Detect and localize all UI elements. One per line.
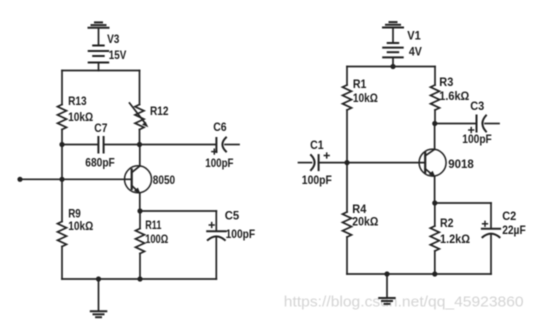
node junction R3 branch / C3 row	[432, 121, 437, 126]
wire emitter row to C2	[435, 202, 491, 204]
wire R4 lower	[346, 237, 348, 274]
svg-text:10kΩ: 10kΩ	[68, 219, 93, 233]
wire R1 branch upper	[346, 67, 348, 86]
plus of C2	[483, 221, 488, 226]
wire R1 to C1 node	[346, 110, 348, 212]
svg-text:V1: V1	[407, 29, 421, 43]
ground (bottom right circuit)	[379, 298, 395, 304]
plus of C1	[324, 153, 329, 158]
wire R3 to C3 node	[434, 110, 436, 124]
ground (top of V1)	[383, 22, 403, 27]
node junction left branch / C7 row	[59, 142, 64, 147]
wire bottom rail left circuit	[62, 278, 216, 280]
svg-text:R2: R2	[440, 216, 454, 230]
svg-text:8050: 8050	[153, 173, 175, 187]
wire R11 branch lower	[139, 254, 141, 280]
arrow of R12	[130, 103, 149, 127]
node junction emitter / C5 row	[137, 208, 142, 213]
resistor R9	[58, 222, 67, 247]
node junction R2 / bottom rail right	[432, 271, 437, 276]
wire C6 right stub	[225, 144, 239, 146]
svg-text:4V: 4V	[409, 44, 423, 58]
wire left branch middle	[61, 130, 63, 222]
node junction right branch / C7 row	[137, 142, 142, 147]
wire C3 row left	[435, 123, 476, 125]
svg-text:https://blog.csdn.net/qq_45923: https://blog.csdn.net/qq_45923860	[284, 294, 524, 311]
node junction R branch / base wire	[344, 160, 349, 165]
svg-text:20kΩ: 20kΩ	[352, 214, 378, 228]
ground (bottom left circuit)	[91, 311, 107, 317]
plus of C5	[209, 223, 214, 228]
svg-text:C5: C5	[225, 208, 240, 222]
capacitor C6 (polarized)	[216, 138, 226, 153]
node junction battery V1 / top rail	[390, 64, 395, 69]
wire R11 branch upper	[139, 211, 141, 229]
svg-text:1.6kΩ: 1.6kΩ	[439, 89, 469, 103]
node junction ground / bottom rail right	[384, 271, 389, 276]
wire R2 branch lower	[434, 251, 436, 274]
svg-text:R11: R11	[145, 218, 161, 232]
wire C5 branch upper	[215, 211, 217, 231]
wire bottom rail right circuit	[347, 273, 491, 275]
wire emitter 9018	[434, 177, 436, 203]
node junction emitter / C2 row	[432, 200, 437, 205]
wire collector 8050	[139, 145, 141, 167]
wire ground stem right circuit	[386, 274, 388, 298]
capacitor C1 (polarized)	[311, 155, 319, 170]
wire ground stem left circuit	[98, 279, 100, 311]
wire emitter row to C5	[140, 210, 216, 212]
ground (top of V3)	[89, 22, 109, 27]
node junction ground / bottom rail	[96, 276, 101, 281]
svg-text:9018: 9018	[448, 157, 474, 171]
wire C3 right stub	[485, 123, 499, 125]
svg-text:C2: C2	[502, 209, 516, 223]
wire C7 to C6	[104, 144, 216, 146]
plus of C3	[469, 128, 474, 133]
node junction left branch / base wire	[59, 177, 64, 182]
resistor R13	[58, 105, 67, 130]
wire left branch lower	[61, 247, 63, 280]
wire R3 branch upper	[434, 67, 436, 86]
svg-text:10kΩ: 10kΩ	[353, 91, 378, 105]
svg-text:680pF: 680pF	[85, 155, 115, 169]
svg-text:100pF: 100pF	[302, 173, 332, 187]
wire right branch to node	[139, 130, 141, 145]
wire C2 branch lower	[490, 235, 492, 274]
resistor R4	[343, 212, 352, 237]
capacitor C3 (polarized)	[477, 116, 487, 132]
resistor R2	[430, 226, 439, 251]
wire right branch upper	[139, 71, 141, 105]
wire input stub to C1	[299, 162, 312, 164]
svg-text:R12: R12	[150, 104, 169, 118]
wire left branch upper	[61, 71, 63, 105]
transistor Q1 8050	[125, 166, 152, 194]
wire top rail right circuit	[347, 66, 435, 68]
svg-text:C6: C6	[213, 120, 226, 134]
wire base 9018	[319, 162, 426, 164]
wire base 8050	[20, 178, 132, 180]
battery V1	[383, 28, 403, 67]
svg-text:15V: 15V	[109, 48, 127, 62]
svg-text:R1: R1	[353, 77, 367, 91]
svg-text:100pF: 100pF	[226, 227, 256, 241]
svg-text:C3: C3	[470, 99, 484, 113]
wire R2 branch upper	[434, 203, 436, 226]
resistor R3	[431, 85, 440, 110]
resistor R11	[136, 229, 145, 254]
node junction R11 / bottom rail	[137, 276, 142, 281]
svg-text:R13: R13	[68, 94, 87, 108]
resistor R12 (variable)	[135, 105, 144, 130]
svg-text:C7: C7	[94, 121, 107, 135]
svg-text:22µF: 22µF	[502, 223, 526, 237]
wire top rail left circuit	[62, 70, 140, 72]
wire C5 branch lower	[215, 238, 217, 280]
svg-text:R3: R3	[439, 75, 453, 89]
capacitor C7	[98, 137, 103, 153]
capacitor C2 (polarized)	[482, 229, 500, 238]
svg-text:V3: V3	[107, 32, 119, 46]
resistor R1	[343, 85, 352, 110]
svg-text:10kΩ: 10kΩ	[68, 110, 93, 124]
wire emitter 8050	[139, 193, 141, 211]
svg-text:100pF: 100pF	[205, 156, 234, 170]
svg-text:100pF: 100pF	[462, 132, 492, 146]
svg-text:1.2kΩ: 1.2kΩ	[440, 232, 470, 246]
wire C7 row left	[62, 144, 98, 146]
battery V3	[89, 28, 109, 71]
wire collector 9018	[434, 124, 436, 150]
wire C2 branch upper	[490, 203, 492, 228]
node input terminal left	[17, 177, 22, 182]
plus of C6	[212, 149, 217, 154]
transistor Q2 9018	[419, 149, 446, 177]
capacitor C5 (polarized)	[207, 231, 225, 240]
svg-text:100Ω: 100Ω	[145, 232, 168, 246]
svg-text:C1: C1	[310, 138, 324, 152]
